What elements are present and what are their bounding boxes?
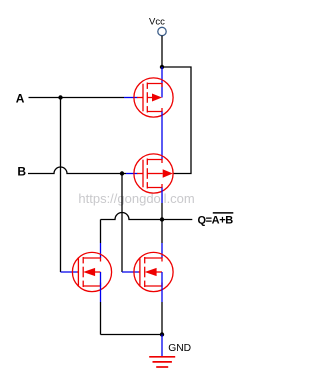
pin stub ground symbol xyxy=(161,335,163,357)
wire ground rail xyxy=(101,334,163,336)
wire output down to NMOS2 drain xyxy=(161,220,163,244)
pin stub PMOS1 source to Vcc junction xyxy=(161,67,163,98)
pin stub NMOS1 source xyxy=(100,272,102,302)
wire Vcc terminal to junction xyxy=(161,36,163,67)
wire PMOS2 drain to output node xyxy=(161,203,163,220)
node label GND xyxy=(168,343,191,354)
transistor NMOS1 (input A) xyxy=(72,252,111,291)
pin stub NMOS2 gate xyxy=(122,271,139,273)
junction A branch xyxy=(58,95,62,99)
svg-text:A: A xyxy=(16,91,25,105)
svg-text:https://gongdoll.com: https://gongdoll.com xyxy=(78,191,194,206)
wire input B with hop over A branch xyxy=(28,167,126,174)
node label Q=A+B with overline xyxy=(198,213,234,226)
watermark https://gongdoll.com xyxy=(78,191,194,206)
transistor NMOS2 (input B) xyxy=(134,252,173,291)
transistor PMOS1 (input A) xyxy=(134,78,173,117)
junction output node xyxy=(160,217,164,221)
junction B branch xyxy=(120,171,124,175)
svg-text:Q=A+B: Q=A+B xyxy=(198,214,234,226)
node label A xyxy=(16,91,25,105)
pin stub PMOS2 drain xyxy=(161,188,163,204)
wire input A xyxy=(29,97,125,99)
wire output down to NMOS1 drain xyxy=(100,220,102,244)
pin stub NMOS2 source xyxy=(161,272,163,302)
wire A branch down to NMOS1 gate xyxy=(60,98,62,273)
pin stub PMOS1 gate xyxy=(124,97,138,99)
node label B xyxy=(17,164,26,178)
wire PMOS1 drain to PMOS2 source xyxy=(161,112,163,160)
pin stub NMOS1 gate xyxy=(61,271,78,273)
node label Vcc xyxy=(149,16,165,27)
junction ground node xyxy=(160,332,164,336)
svg-text:GND: GND xyxy=(168,343,191,354)
pin stub PMOS2 gate xyxy=(126,173,138,175)
junction Vcc node xyxy=(160,65,164,69)
pin stub NMOS2 drain xyxy=(161,243,163,258)
wire B branch down to NMOS2 gate xyxy=(121,174,123,273)
wire Vcc branch to PMOS2 body xyxy=(162,67,191,174)
power terminal Vcc xyxy=(158,27,166,35)
svg-text:B: B xyxy=(17,164,26,178)
transistor PMOS2 (input B) xyxy=(134,154,173,193)
wire NMOS2 source to ground rail xyxy=(161,302,163,335)
pin stub NMOS1 drain xyxy=(100,243,102,258)
wire output line with hop over B branch xyxy=(101,213,193,220)
ground symbol xyxy=(149,357,175,367)
svg-text:Vcc: Vcc xyxy=(149,16,165,27)
wire NMOS1 source to ground rail xyxy=(100,302,102,335)
